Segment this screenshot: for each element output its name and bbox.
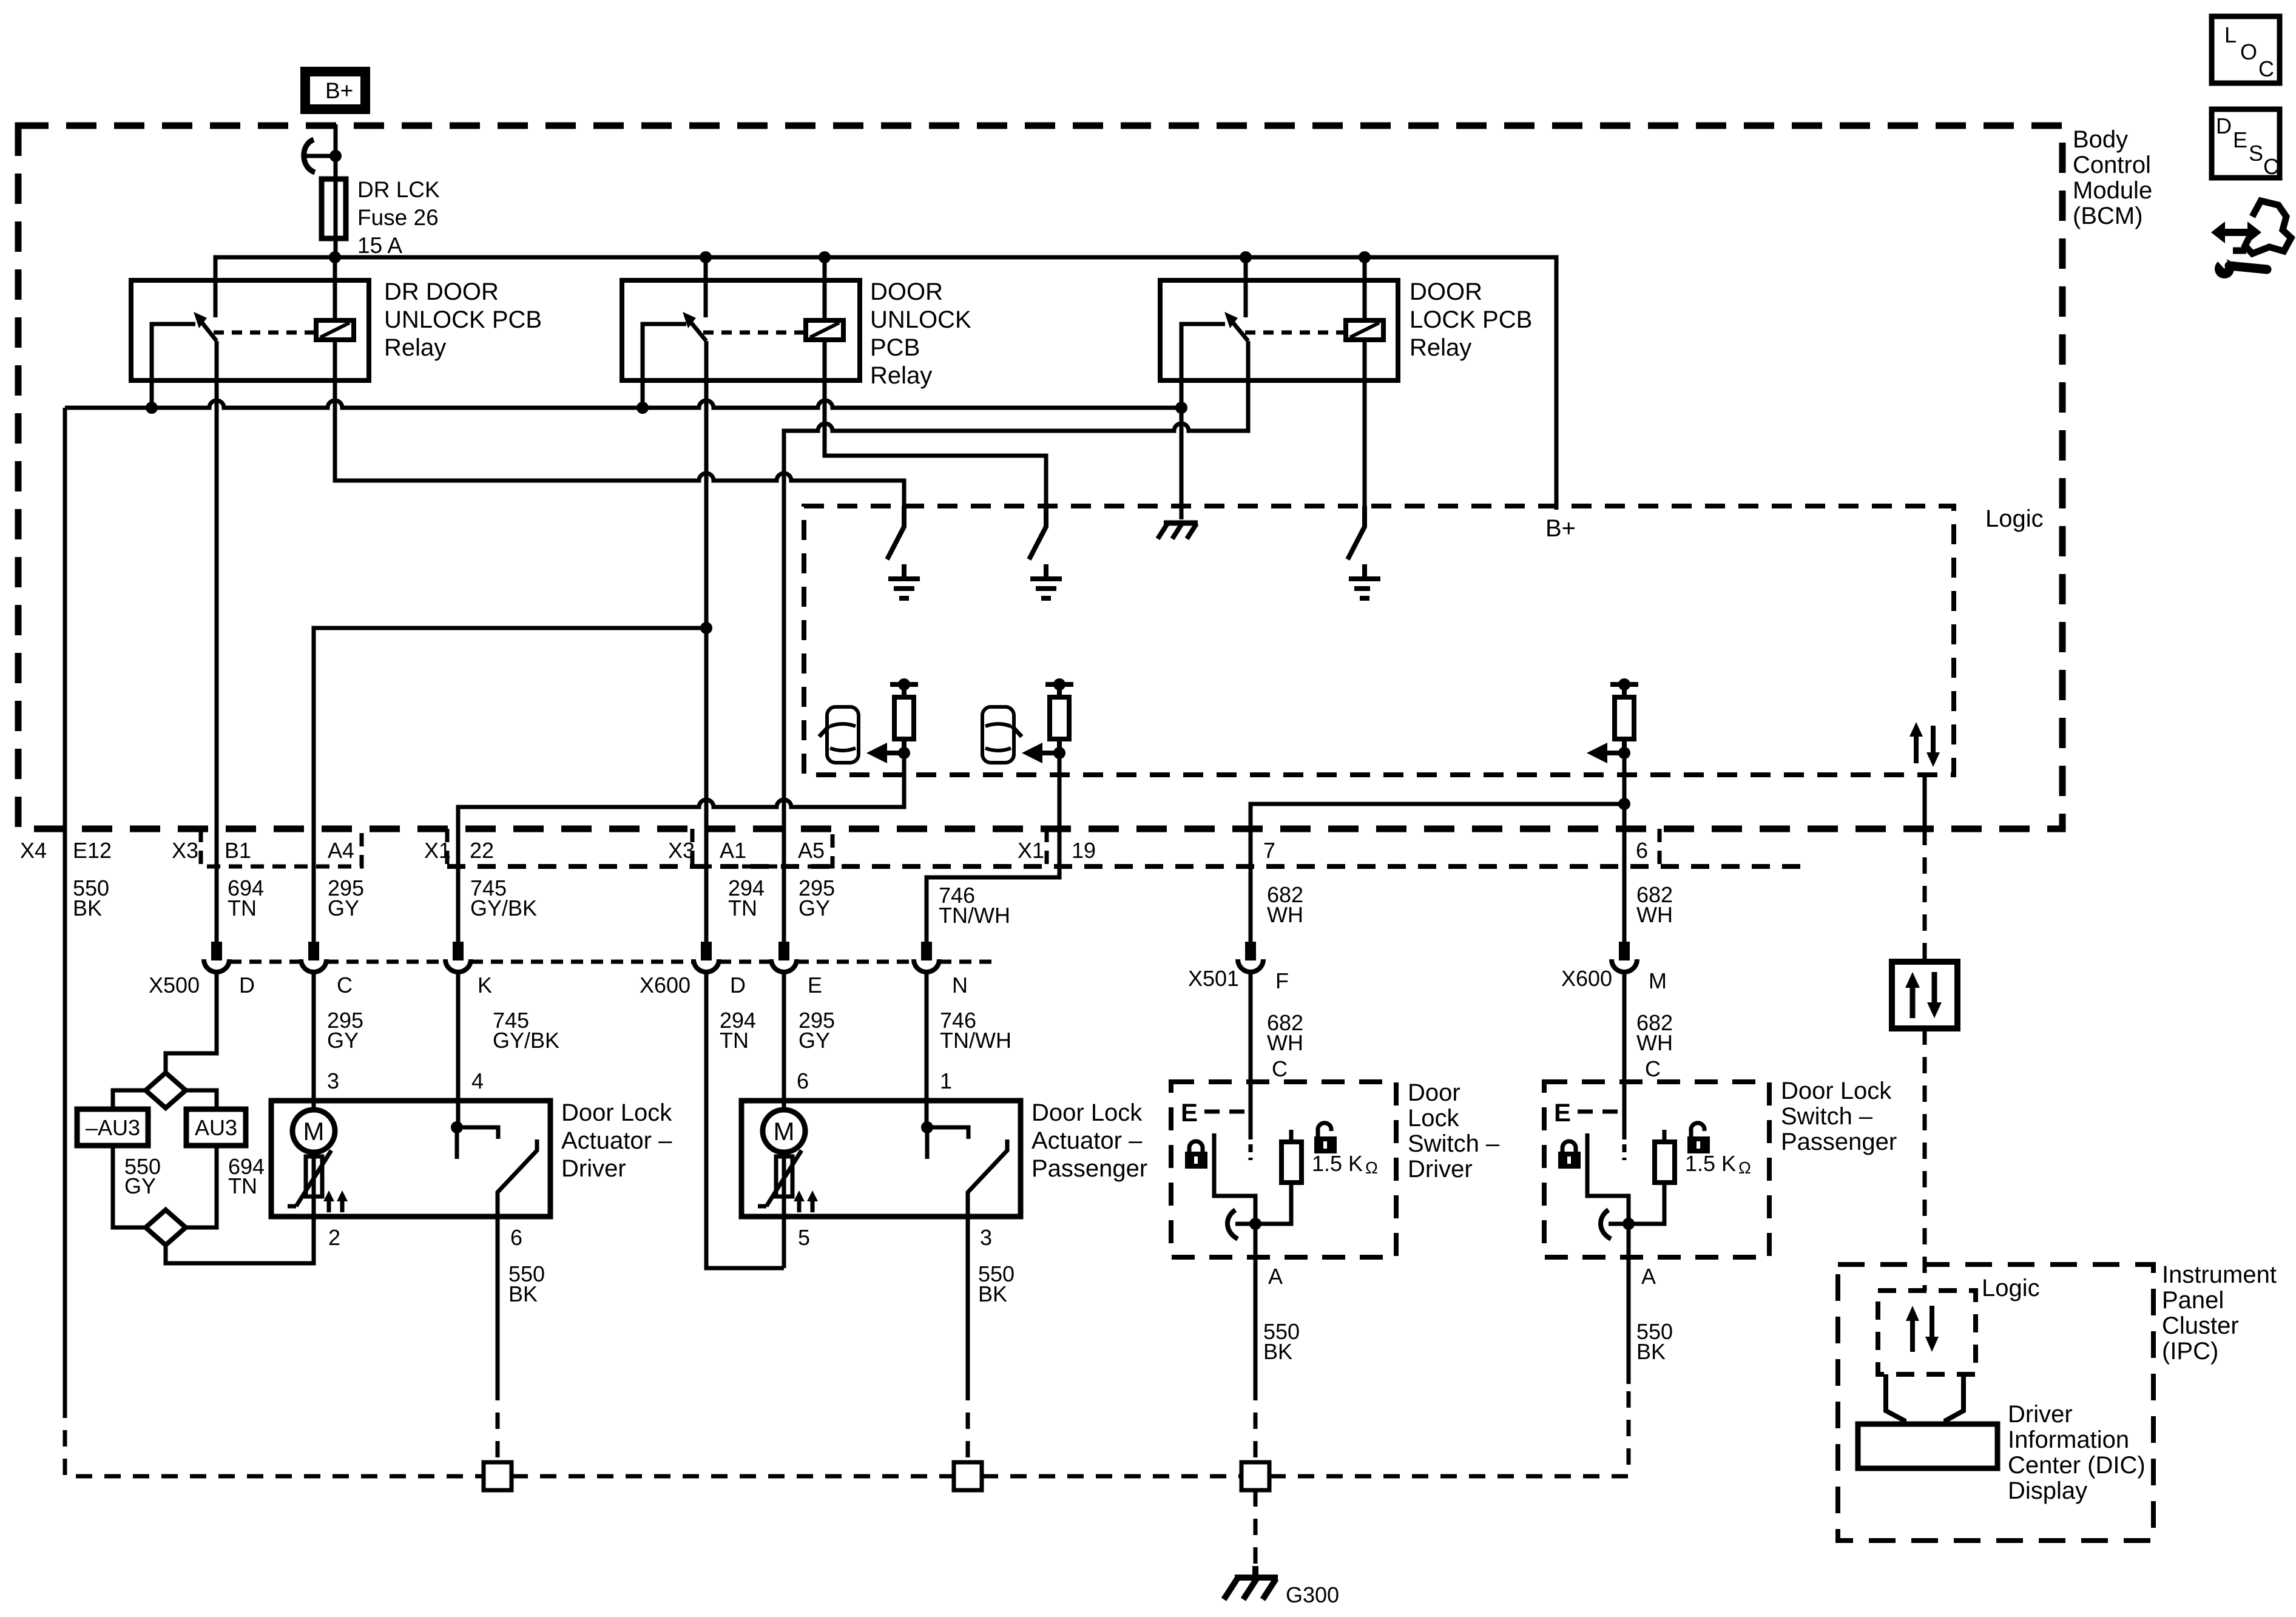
svg-text:L: L bbox=[2224, 22, 2237, 47]
svg-text:C: C bbox=[1272, 1056, 1288, 1081]
svg-text:6: 6 bbox=[1636, 838, 1648, 863]
svg-text:S: S bbox=[2249, 141, 2263, 166]
svg-text:X500: X500 bbox=[149, 973, 200, 998]
svg-text:E: E bbox=[1181, 1098, 1198, 1127]
svg-text:Instrument: Instrument bbox=[2162, 1261, 2277, 1288]
svg-text:Switch –: Switch – bbox=[1781, 1103, 1873, 1130]
svg-text:DOOR: DOOR bbox=[1410, 279, 1482, 305]
svg-text:1.5 K: 1.5 K bbox=[1312, 1151, 1363, 1176]
svg-text:DOOR: DOOR bbox=[870, 279, 943, 305]
svg-text:D: D bbox=[239, 973, 255, 998]
svg-text:DR DOOR: DR DOOR bbox=[384, 279, 499, 305]
svg-text:Door Lock: Door Lock bbox=[1781, 1078, 1892, 1104]
svg-text:O: O bbox=[2240, 39, 2257, 64]
svg-text:A1: A1 bbox=[720, 838, 746, 863]
svg-text:Switch –: Switch – bbox=[1408, 1130, 1500, 1157]
svg-text:X1: X1 bbox=[424, 838, 451, 863]
svg-text:Door Lock: Door Lock bbox=[1032, 1099, 1143, 1126]
svg-text:TN/WH: TN/WH bbox=[939, 903, 1010, 928]
svg-text:G300: G300 bbox=[1286, 1582, 1339, 1607]
svg-text:Driver: Driver bbox=[561, 1155, 626, 1182]
svg-text:GY: GY bbox=[799, 1028, 830, 1053]
svg-text:TN: TN bbox=[228, 896, 257, 920]
svg-text:Ω: Ω bbox=[1738, 1158, 1751, 1177]
svg-text:Information: Information bbox=[2008, 1426, 2129, 1453]
svg-text:C: C bbox=[2258, 56, 2274, 81]
svg-text:BK: BK bbox=[1263, 1339, 1292, 1364]
svg-text:Center (DIC): Center (DIC) bbox=[2008, 1452, 2146, 1479]
svg-text:Body: Body bbox=[2073, 126, 2128, 153]
svg-text:D: D bbox=[730, 973, 746, 998]
svg-text:Door: Door bbox=[1408, 1079, 1460, 1106]
svg-text:Actuator –: Actuator – bbox=[1032, 1127, 1143, 1154]
svg-text:E: E bbox=[808, 973, 822, 998]
svg-text:X4: X4 bbox=[20, 838, 47, 863]
svg-text:Passenger: Passenger bbox=[1781, 1129, 1897, 1155]
svg-text:WH: WH bbox=[1636, 1030, 1673, 1055]
svg-text:LOCK PCB: LOCK PCB bbox=[1410, 306, 1532, 333]
svg-text:Logic: Logic bbox=[1982, 1275, 2040, 1301]
svg-text:BK: BK bbox=[73, 896, 102, 920]
svg-text:K: K bbox=[478, 973, 492, 998]
svg-text:F: F bbox=[1275, 968, 1289, 993]
svg-text:Relay: Relay bbox=[1410, 334, 1471, 361]
svg-text:E: E bbox=[2233, 127, 2247, 152]
svg-text:UNLOCK PCB: UNLOCK PCB bbox=[384, 306, 542, 333]
svg-text:2: 2 bbox=[328, 1225, 340, 1250]
svg-text:Door Lock: Door Lock bbox=[561, 1099, 672, 1126]
svg-text:E12: E12 bbox=[73, 838, 112, 863]
svg-text:GY: GY bbox=[124, 1173, 156, 1198]
svg-text:DR LCK: DR LCK bbox=[357, 177, 440, 202]
svg-text:B1: B1 bbox=[225, 838, 251, 863]
svg-text:UNLOCK: UNLOCK bbox=[870, 306, 971, 333]
svg-text:WH: WH bbox=[1636, 902, 1673, 927]
svg-text:X1: X1 bbox=[1018, 838, 1044, 863]
svg-text:A: A bbox=[1268, 1264, 1283, 1289]
svg-text:BK: BK bbox=[508, 1281, 538, 1306]
svg-text:Display: Display bbox=[2008, 1477, 2087, 1504]
svg-text:Relay: Relay bbox=[384, 334, 446, 361]
svg-text:M: M bbox=[303, 1117, 325, 1146]
svg-text:Module: Module bbox=[2073, 177, 2152, 204]
svg-text:GY/BK: GY/BK bbox=[493, 1028, 559, 1053]
svg-text:Cluster: Cluster bbox=[2162, 1312, 2239, 1339]
svg-text:A5: A5 bbox=[798, 838, 825, 863]
svg-text:19: 19 bbox=[1072, 838, 1096, 863]
svg-text:Ω: Ω bbox=[1365, 1158, 1378, 1177]
svg-text:Actuator –: Actuator – bbox=[561, 1127, 672, 1154]
svg-text:B+: B+ bbox=[1545, 515, 1576, 542]
svg-text:X3: X3 bbox=[668, 838, 695, 863]
svg-text:7: 7 bbox=[1263, 838, 1275, 863]
svg-text:6: 6 bbox=[797, 1068, 809, 1093]
svg-text:TN: TN bbox=[728, 896, 757, 920]
svg-text:4: 4 bbox=[471, 1068, 484, 1093]
svg-text:(IPC): (IPC) bbox=[2162, 1338, 2218, 1365]
svg-text:TN/WH: TN/WH bbox=[940, 1028, 1011, 1053]
svg-text:15 A: 15 A bbox=[357, 233, 402, 258]
svg-text:M: M bbox=[774, 1117, 795, 1146]
svg-text:1: 1 bbox=[940, 1068, 952, 1093]
svg-text:Lock: Lock bbox=[1408, 1105, 1459, 1132]
svg-text:E: E bbox=[1554, 1098, 1571, 1127]
svg-text:C: C bbox=[2263, 154, 2279, 179]
svg-text:3: 3 bbox=[327, 1068, 339, 1093]
svg-text:Driver: Driver bbox=[1408, 1156, 1473, 1183]
svg-text:1.5 K: 1.5 K bbox=[1685, 1151, 1736, 1176]
svg-text:Control: Control bbox=[2073, 152, 2151, 178]
svg-text:GY: GY bbox=[799, 896, 830, 920]
svg-text:A: A bbox=[1641, 1264, 1656, 1289]
svg-text:X600: X600 bbox=[1561, 966, 1612, 991]
svg-text:PCB: PCB bbox=[870, 334, 920, 361]
svg-text:TN: TN bbox=[720, 1028, 749, 1053]
svg-text:WH: WH bbox=[1267, 1030, 1303, 1055]
svg-text:WH: WH bbox=[1267, 902, 1303, 927]
svg-text:–AU3: –AU3 bbox=[86, 1115, 140, 1140]
svg-text:X600: X600 bbox=[640, 973, 690, 998]
svg-text:BK: BK bbox=[978, 1281, 1007, 1306]
svg-text:N: N bbox=[952, 973, 968, 998]
svg-text:X501: X501 bbox=[1188, 966, 1239, 991]
svg-text:X3: X3 bbox=[172, 838, 198, 863]
svg-text:C: C bbox=[1645, 1056, 1661, 1081]
svg-text:5: 5 bbox=[798, 1225, 810, 1250]
svg-text:GY: GY bbox=[328, 896, 359, 920]
svg-text:Relay: Relay bbox=[870, 362, 932, 389]
svg-text:M: M bbox=[1649, 968, 1667, 993]
svg-text:22: 22 bbox=[470, 838, 494, 863]
svg-text:D: D bbox=[2216, 113, 2232, 138]
svg-text:6: 6 bbox=[510, 1225, 522, 1250]
svg-text:AU3: AU3 bbox=[195, 1115, 237, 1140]
svg-text:3: 3 bbox=[980, 1225, 992, 1250]
svg-text:Driver: Driver bbox=[2008, 1401, 2073, 1428]
svg-text:Passenger: Passenger bbox=[1032, 1155, 1147, 1182]
svg-text:TN: TN bbox=[228, 1173, 257, 1198]
svg-text:Fuse 26: Fuse 26 bbox=[357, 205, 439, 230]
svg-text:(BCM): (BCM) bbox=[2073, 203, 2143, 229]
svg-text:BK: BK bbox=[1636, 1339, 1666, 1364]
svg-text:B+: B+ bbox=[325, 78, 353, 103]
svg-text:Panel: Panel bbox=[2162, 1287, 2224, 1314]
svg-text:Logic: Logic bbox=[1985, 505, 2044, 532]
svg-text:A4: A4 bbox=[328, 838, 354, 863]
svg-text:GY/BK: GY/BK bbox=[470, 896, 537, 920]
svg-text:GY: GY bbox=[327, 1028, 359, 1053]
svg-text:C: C bbox=[337, 973, 353, 998]
